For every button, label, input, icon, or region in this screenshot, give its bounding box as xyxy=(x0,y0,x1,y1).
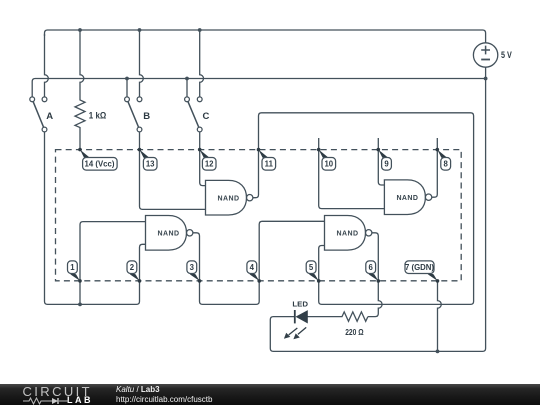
svg-text:LED: LED xyxy=(292,300,308,309)
pin 11 label box xyxy=(262,158,276,171)
svg-text:NAND: NAND xyxy=(396,195,418,202)
LED D1 emission arrows xyxy=(284,327,306,339)
wire: pin 9 stub and to NAND U2 upper input xyxy=(378,138,384,185)
CircuitLab logo text xyxy=(23,386,93,397)
footer title xyxy=(116,385,160,395)
svg-text:13: 13 xyxy=(146,159,155,168)
pin 4 label box xyxy=(247,261,257,274)
svg-text:11: 11 xyxy=(265,159,274,168)
switch SW1 (A) blade xyxy=(32,99,44,129)
logo doodle: wire, resistor, diode xyxy=(23,397,69,405)
wire: pin 7 down (hop over pin5 wire) to ground bottom wire xyxy=(438,281,442,352)
svg-text:1 kΩ: 1 kΩ xyxy=(89,111,107,121)
svg-text:A: A xyxy=(46,111,53,122)
pin 4 wedge xyxy=(249,274,259,281)
wire: pin 13 to NAND U1 lower input xyxy=(140,150,206,210)
wire: pin 5 to pin 11 net (down, right, up right side, left along top, down to pin 11) xyxy=(259,113,474,305)
pin 5 label box xyxy=(306,261,316,274)
wire: pin 6 down (hop over pin5 wire) to resistor R2 xyxy=(368,281,382,317)
switch A terminals xyxy=(30,97,35,102)
pin 7 wedge xyxy=(428,274,438,281)
wire: switch C right terminal feed from top rail (hop over ground rail) xyxy=(200,30,204,97)
pin 14 (Vcc) label box xyxy=(83,158,118,171)
svg-text:14 (Vcc): 14 (Vcc) xyxy=(85,159,115,168)
resistor R2 220 ohm zigzag between LED anode and pin6 wire xyxy=(307,312,368,321)
pin 6 wedge xyxy=(369,274,379,281)
NAND gate U3 xyxy=(146,216,193,251)
wire: switch C left terminal feed from ground rail xyxy=(186,79,188,97)
pin 9 wedge xyxy=(378,150,388,159)
svg-text:NAND: NAND xyxy=(218,195,240,202)
wire: pin 12 to NAND U1 upper input xyxy=(200,150,206,186)
pin 2 wedge xyxy=(130,274,140,281)
svg-text:4: 4 xyxy=(250,263,255,272)
wire: pin 3 to pin 4 xyxy=(200,281,260,305)
pin connection dots xyxy=(78,148,439,283)
wire: pin 8 stub xyxy=(436,138,438,150)
pin 7 (GDN) label box xyxy=(405,261,434,274)
pin 8 label box xyxy=(441,158,451,171)
pin 14 wedge xyxy=(80,150,90,159)
wire: +5V top rail from switch A to source V1 xyxy=(45,30,486,43)
wire: switch B pole down to pin 13 xyxy=(139,132,141,150)
pin 13 label box xyxy=(143,158,157,171)
svg-text:NAND: NAND xyxy=(337,231,359,238)
svg-text:NAND: NAND xyxy=(158,231,180,238)
svg-text:5 V: 5 V xyxy=(501,50,512,60)
voltage source V1 5V xyxy=(473,43,497,67)
pin 3 label box xyxy=(187,261,197,274)
footer bar xyxy=(0,384,540,405)
pin 11 wedge xyxy=(259,150,269,159)
svg-text:10: 10 xyxy=(324,159,333,168)
pin 12 label box xyxy=(202,158,216,171)
IC1 dashed boundary box xyxy=(56,150,462,281)
wire: NAND U1 output up to pin 11 xyxy=(253,150,259,198)
wire: NAND U3 output down to pin 3 xyxy=(193,233,200,281)
switch SW3 (C) blade xyxy=(187,99,200,129)
pin 5 wedge xyxy=(309,274,319,281)
resistor R1 1k: feed from top rail with hop, zigzag body, lead to pin 14 xyxy=(75,30,85,150)
pin 9 label box xyxy=(382,158,392,171)
pin 1 wedge xyxy=(70,274,80,281)
switch C terminals xyxy=(185,97,190,102)
svg-text:5: 5 xyxy=(309,263,314,272)
wire: pin 1 up to NAND U3 upper input xyxy=(80,222,146,281)
svg-text:2: 2 xyxy=(130,263,135,272)
wire: switch B left terminal feed from ground rail xyxy=(126,79,128,97)
wire: switch C pole down to pin 12 xyxy=(199,132,201,150)
switch SW2 (B) blade xyxy=(127,99,140,129)
wire: source minus lead down right side, bottom ground run, up to LED cathode xyxy=(270,67,485,351)
NAND gate U2 xyxy=(384,180,431,215)
switch B terminals xyxy=(125,97,130,102)
wire: pin 5 up to NAND U4 lower input xyxy=(319,246,325,281)
pin 2 label box xyxy=(127,261,137,274)
svg-text:6: 6 xyxy=(369,263,374,272)
pin 13 wedge xyxy=(140,150,150,159)
NAND gate U1 xyxy=(206,180,253,215)
pin 12 wedge xyxy=(200,150,210,159)
wire: pin 10 stub and to NAND U2 lower input xyxy=(319,138,385,209)
pin 1 label box xyxy=(68,261,78,274)
wire: NAND U2 output up to pin 8 xyxy=(432,150,438,198)
svg-text:9: 9 xyxy=(384,159,389,168)
LED D1 symbol xyxy=(295,310,308,323)
pin labels top row xyxy=(68,158,451,274)
pin 10 label box xyxy=(322,158,336,171)
svg-text:220 Ω: 220 Ω xyxy=(345,327,363,337)
svg-text:1: 1 xyxy=(70,263,75,272)
svg-text:8: 8 xyxy=(444,159,449,168)
wire: pin 1 stub down to A-net xyxy=(79,281,81,305)
footer url xyxy=(116,395,212,404)
wire: ground rail from switch A left terminal to source minus xyxy=(32,79,485,97)
pin 8 wedge xyxy=(437,150,447,159)
wire: switch A right terminal feed from top rail (hop over ground rail) xyxy=(45,34,49,97)
wire: pin 4 up to NAND U4 upper input xyxy=(259,221,324,281)
wire: switch A pole down to bottom, right to pin 2 xyxy=(45,132,140,305)
NAND gate U4 xyxy=(325,216,372,251)
svg-text:C: C xyxy=(203,111,210,122)
wire: pin 2 up to NAND U3 lower input xyxy=(140,244,146,281)
pin 6 label box xyxy=(366,261,376,274)
wire: switch B right terminal feed from top rail (hop over ground rail) xyxy=(140,30,144,97)
wire: NAND U4 output down to pin 6 xyxy=(372,233,378,281)
svg-text:12: 12 xyxy=(205,159,214,168)
svg-text:7 (GDN): 7 (GDN) xyxy=(405,263,434,272)
svg-text:3: 3 xyxy=(190,263,195,272)
pin 10 wedge xyxy=(319,150,329,159)
pin 3 wedge xyxy=(190,274,200,281)
svg-text:B: B xyxy=(143,111,150,122)
